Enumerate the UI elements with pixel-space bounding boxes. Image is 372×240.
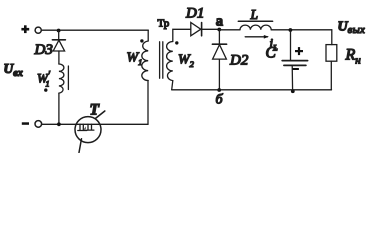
diode D3	[52, 40, 65, 51]
wire bottom rail secondary	[172, 89, 332, 91]
input terminal circle top	[35, 27, 41, 33]
wire Rn bottom lead	[330, 61, 332, 90]
wire W1 top lead	[147, 30, 149, 41]
wire node a to D2	[218, 30, 220, 45]
polarity dot W2	[175, 41, 178, 44]
capacitor plus sign	[295, 47, 303, 55]
svg-text:D1: D1	[185, 6, 204, 22]
inductor L	[240, 25, 271, 30]
plus terminal label	[21, 25, 29, 33]
wire capacitor top lead	[290, 30, 292, 60]
svg-text:Rн: Rн	[345, 47, 362, 67]
diode D2	[212, 44, 226, 59]
svg-text:Т: Т	[90, 102, 100, 119]
winding W2 secondary	[167, 41, 173, 80]
svg-text:Uвых: Uвых	[338, 20, 366, 37]
svg-text:W1: W1	[127, 51, 143, 68]
core bar of L	[238, 20, 272, 22]
transformer core	[160, 42, 163, 78]
svg-text:б: б	[216, 93, 224, 108]
wire D3 anode to W1'	[58, 51, 60, 64]
svg-text:L: L	[250, 7, 259, 22]
svg-text:Uвх: Uвх	[4, 61, 24, 79]
wire W2 top lead	[173, 29, 191, 41]
wire output right corner down	[331, 30, 333, 45]
wire bottom rail primary	[42, 123, 149, 125]
current arrow iL	[245, 35, 269, 39]
junction node capacitor top	[289, 28, 293, 32]
wire D1 to node a	[202, 28, 220, 30]
wire D2 anode to bottom rail	[218, 59, 220, 90]
wire W1 bottom lead up	[147, 81, 149, 125]
wire W1' bottom lead	[58, 93, 60, 124]
winding W1 primary	[142, 41, 148, 81]
transistor T	[75, 111, 105, 153]
junction node of D3 on top rail	[57, 29, 61, 33]
input terminal circle bottom	[35, 121, 42, 128]
wire D3 cathode lead	[58, 31, 60, 40]
svg-text:C: C	[266, 45, 277, 62]
node a junction	[217, 28, 221, 32]
polarity dot W1	[140, 39, 143, 42]
polarity dot W1'	[44, 88, 47, 91]
wire capacitor bottom lead	[291, 65, 293, 91]
capacitor C	[282, 61, 307, 66]
wire L to output	[271, 29, 332, 31]
resistor Rn	[326, 45, 337, 62]
junction node b on bottom rail	[217, 88, 221, 92]
wire top rail primary	[41, 29, 148, 31]
capacitor minus sign	[293, 68, 299, 70]
wire W2 bottom lead	[172, 81, 173, 90]
winding W1' (demagnetizing)	[59, 64, 64, 93]
junction node capacitor bottom	[291, 89, 295, 93]
core bar of W1'	[67, 66, 69, 90]
svg-text:D3: D3	[34, 42, 53, 58]
minus terminal label	[22, 122, 29, 125]
svg-text:Тр: Тр	[158, 17, 170, 29]
svg-text:D2: D2	[229, 53, 249, 69]
junction node of W1' on bottom rail	[57, 122, 61, 126]
svg-text:а: а	[216, 13, 224, 29]
wire node a to L	[219, 29, 240, 31]
svg-text:W2: W2	[178, 53, 195, 70]
svg-text:W′1: W′1	[37, 70, 51, 89]
diode D1	[191, 23, 202, 36]
